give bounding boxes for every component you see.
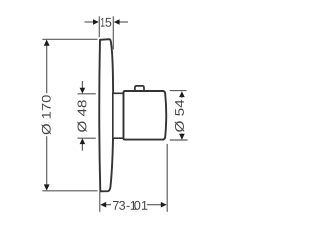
dim 15: right extension line [112, 16, 114, 49]
dim Ø48: bottom leader line [81, 143, 83, 150]
dim 15: right leader line [119, 21, 128, 23]
dim Ø54: bottom extension line [170, 139, 188, 141]
dim 15: left arrowhead [93, 19, 99, 24]
dim Ø54: value label "Ø 54" (rotated) [175, 100, 184, 132]
dim Ø48: top leader line [81, 81, 83, 89]
handle knob [124, 91, 167, 140]
tab button on handle top [135, 86, 144, 91]
dim 73-101: left leader line [105, 204, 111, 206]
dim 73-101: right arrowhead (pointing right) [161, 202, 167, 208]
dim Ø170: top arrowhead [44, 40, 50, 46]
dim Ø170: bottom arrowhead [44, 184, 50, 190]
dim 15: left leader line [85, 21, 94, 23]
dim Ø48: value label "Ø 48" (rotated) [77, 100, 86, 132]
dim 15: value label "15" [101, 18, 111, 27]
sleeve stem [113, 93, 124, 138]
dim Ø54: top arrowhead (pointing up) [179, 91, 185, 97]
dim 15: left extension line [98, 16, 100, 37]
dim Ø54: bottom arrowhead (pointing down) [179, 134, 185, 140]
dim Ø54: upper stub line [181, 96, 183, 98]
escutcheon plate (side view) [99, 39, 113, 191]
dim 73-101: left extension line [99, 192, 101, 212]
dim 73-101: value label "73-101" [113, 201, 147, 210]
dim Ø54: top extension line [170, 90, 187, 92]
dim Ø48: top arrowhead (pointing down) [80, 88, 86, 94]
dim 15: right arrowhead [114, 19, 120, 24]
dim Ø170: dimension line lower segment [46, 136, 48, 185]
dim Ø54: lower stub line [181, 133, 183, 135]
dim Ø48: bottom arrowhead (pointing up) [80, 138, 86, 144]
dim 73-101: left arrowhead (pointing left) [100, 202, 106, 208]
dim Ø170: dimension line upper segment [46, 45, 48, 94]
dim Ø170: top extension line [42, 38, 97, 40]
dim 73-101: right leader line [147, 204, 162, 206]
dim Ø170: bottom extension line [42, 190, 97, 192]
dim 73-101: right extension line [166, 144, 168, 212]
dim Ø48: bottom extension line [78, 137, 96, 139]
dim Ø48: top extension line [78, 93, 96, 95]
dim Ø170: value label "Ø 170" (rotated) [42, 95, 51, 134]
